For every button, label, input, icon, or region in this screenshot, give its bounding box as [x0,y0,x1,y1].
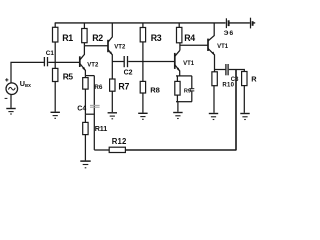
wire C4 column [93,76,95,150]
ground R7 [108,113,117,119]
wire R3 column top [142,23,144,28]
capacitor C2 left plate [123,56,125,67]
wire R4 bottom to VT1 collector node [179,43,181,51]
transistor VT2 upper emitter [108,50,112,62]
wire collector node to VT2 upper base [84,45,108,47]
wire battery right stub [253,22,255,24]
resistor R1 [53,27,58,42]
capacitor C1 left plate [43,57,45,66]
wire C4 corner to R12 [94,149,109,151]
capacitor C2 right plate [127,56,129,67]
resistor R6 [83,78,88,90]
transistor VT1 upper collector [208,23,214,41]
svg-text:R9: R9 [184,88,191,94]
wire R1 column top [54,23,56,27]
svg-text:VT2: VT2 [87,62,99,68]
svg-text:R7: R7 [118,81,129,91]
svg-text:C2: C2 [124,69,133,76]
wire R4 column top [178,23,180,27]
svg-text:R6: R6 [94,84,103,91]
svg-text:C4: C4 [77,106,86,113]
wire R5 to ground [54,82,56,112]
resistor R4 [177,27,182,42]
svg-text:VT2: VT2 [114,45,126,51]
resistor R load [242,72,247,86]
wire cap branch top [191,76,193,89]
wire R6 bottom to bar [84,89,86,114]
ground R11 [80,161,90,168]
wire R10 to ground [213,86,215,113]
source G1 sine [8,87,15,90]
wire top supply rail [55,22,226,24]
ground R8 [138,113,147,119]
wire R9 combo bottom bar [176,101,192,103]
capacitor across R9 bottom plate [189,90,194,92]
svg-text:R1: R1 [62,33,73,43]
battery GB left cell long plate [225,18,227,28]
svg-text:R12: R12 [112,137,127,146]
battery GB right cell long plate [250,18,252,29]
wire feedback vertical [235,70,237,151]
wire R12 to feedback corner [125,149,236,151]
wire node to R8 [142,62,144,82]
wire R8 to ground [142,93,144,113]
wire collector node to VT1 upper base [180,44,208,46]
svg-text:R8: R8 [150,86,159,95]
wire emitter node to R6 [84,76,86,78]
source G1 minus [5,97,8,99]
ground source [6,109,15,115]
wire C2 to R3 node and VT1 base [128,61,174,63]
wire R9 bottom [176,95,178,102]
wire R7 to ground [111,91,113,112]
transistor VT2 lower collector [80,46,85,60]
wire emitter node to C3 [215,69,226,71]
transistor VT1 upper base bar [207,39,209,51]
wire emitter node to R10 [214,70,216,72]
wire input node to R5 [54,62,56,68]
svg-text:R3: R3 [151,33,162,43]
wire rail between battery cells [230,22,250,24]
wire C1 to input node and VT2 base [48,61,79,63]
ground R9 [173,113,182,119]
svg-text:R11: R11 [95,124,107,133]
transistor VT2 upper emitter arrow [109,52,112,55]
ground R5 [51,112,60,118]
wire VT2 upper emitter node to R7 [111,62,113,80]
wire cap branch bottom [191,91,193,102]
transistor VT2 lower emitter arrow [82,67,85,71]
transistor VT1 upper emitter arrow [211,52,214,56]
wire R load to ground [243,86,245,113]
transistor VT1 upper emitter [208,49,214,70]
capacitor across R9 top plate [189,88,194,90]
wire R2 bottom to collector node [83,43,85,46]
transistor VT2 lower base bar [79,56,81,67]
svg-text:C1: C1 [46,50,55,57]
capacitor C1 right plate [47,57,49,66]
wire R3 bottom to C2 wire node [142,42,144,62]
capacitor C3 left plate [225,64,227,75]
capacitor C4 plate bottom [90,106,100,108]
wire VT2 upper emitter node to C2 [112,61,123,63]
transistor VT2 upper base bar [107,40,109,52]
wire C3 to load R [229,70,245,72]
resistor R2 [82,29,87,43]
resistor R9 [175,81,180,95]
capacitor C3 right plate [227,64,229,75]
source G1 plus [5,78,8,81]
resistor R10 [212,72,217,86]
svg-text:VT1: VT1 [183,61,195,67]
wire R1 bottom to input node [54,42,56,62]
resistor R3 [140,28,145,42]
transistor VT1 lower emitter arrow [177,68,180,72]
wire R11 to ground [84,135,86,161]
resistor R5 [53,68,58,81]
transistor VT1 lower base bar [174,53,176,69]
resistor R11 [83,122,88,134]
wire emitter node branch [85,75,94,77]
svg-text:R: R [251,74,257,83]
wire bar joining R6 and C4 columns [85,113,94,115]
transistor VT1 lower emitter [175,65,180,76]
source G1 circle [6,83,18,95]
svg-text:R5: R5 [63,71,74,81]
wire source to ground [10,95,12,108]
ground R10 [209,114,218,120]
wire bar to R11 [84,114,86,122]
svg-text:VT1: VT1 [217,44,229,50]
resistor R8 [140,81,145,93]
wire source vertical [11,62,44,83]
svg-text:Э6: Э6 [224,30,235,37]
battery GB right cell short plate [252,21,254,26]
capacitor C4 plate top [90,104,100,106]
resistor R7 [110,79,115,91]
battery GB left cell short plate [228,20,230,26]
svg-text:R2: R2 [92,33,103,43]
ground R load [240,114,249,120]
resistor R12 [109,147,125,152]
svg-text:R10: R10 [222,82,234,88]
transistor VT2 upper collector [108,23,112,42]
wire combo to ground [177,102,179,112]
transistor VT2 lower emitter [80,64,86,76]
wire R9 combo top bar [176,75,192,77]
wire R2 column top [83,23,85,29]
svg-text:R4: R4 [184,33,195,43]
transistor VT1 lower collector [175,50,180,56]
wire R9 branch top [176,76,178,82]
